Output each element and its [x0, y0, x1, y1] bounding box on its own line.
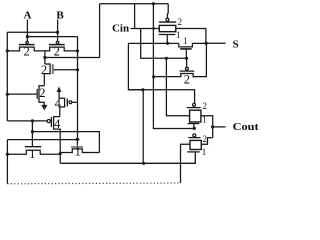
M8 size label 1 [75, 145, 81, 159]
wire N1 to Cin-column (y=57.5) [45, 57, 100, 59]
T5 size label 4 [55, 96, 62, 110]
up arrow above T5 [57, 86, 62, 92]
node lower rail M7 source dot [6, 153, 9, 156]
transmission gate TG1 (sizes 2/1) [166, 4, 169, 19]
transmission gate box1 (Cout mux, sizes 2/1) [193, 103, 196, 106]
transistor M_S1 (NMOS inverted, size 1) [179, 43, 206, 47]
svg-text:Cout: Cout [233, 121, 259, 133]
svg-text:Cin: Cin [112, 23, 129, 35]
M_S1 size label 1 [183, 36, 188, 46]
wire node N1 vertical tap [44, 51, 46, 64]
transistor T5 (PMOS vertical, gate=A riser, size 4) [59, 92, 65, 117]
node riser M8 gate dot [76, 138, 79, 141]
wire left rail (B) vertical [6, 32, 8, 121]
transistor M8 (NMOS, gate=A, size 1) [76, 139, 78, 145]
TG3 size label 2 [203, 134, 208, 144]
wire riser x=134.6 to top rail [134, 4, 136, 29]
output label Cout [233, 121, 259, 133]
TG3 size label 1 [202, 147, 207, 157]
wire x=128.4 vertical [128, 43, 143, 89]
wire S output [206, 42, 225, 44]
wire W_bot y=163.3 [60, 152, 195, 163]
node S dot [205, 42, 208, 45]
svg-text:1: 1 [183, 36, 188, 46]
wire Cout output [213, 126, 226, 128]
node top rail dot [152, 2, 155, 5]
svg-text:1: 1 [75, 145, 81, 159]
node T6 gate wire dot [31, 119, 34, 122]
wire A horizontal to riser [27, 36, 77, 38]
svg-text:2: 2 [203, 101, 208, 111]
TG1 size label 1 [176, 30, 181, 40]
node W_g dot [193, 127, 196, 130]
node riser P2 drain dot [76, 49, 79, 52]
wire box2 right terminal to Cout node [201, 138, 212, 145]
P1 size label 2 [23, 45, 29, 59]
input label Cin [112, 23, 129, 35]
down arrow under T4 [41, 105, 47, 111]
wire top rail (Cin) [100, 3, 169, 5]
wire vertical x=99.6 up to top rail [99, 4, 101, 58]
node A tap dot [26, 35, 29, 38]
svg-text:S: S [232, 39, 238, 51]
M_S2 size label 2 [184, 72, 190, 86]
transistor T3 (NMOS vertical, gate=A, size 2) [44, 64, 50, 86]
wire y=89.9 (S to box1 gate) [128, 90, 194, 104]
wire W_S (sum wire y=43.3) [128, 42, 178, 44]
node wire y=89.9 riser dot [141, 88, 144, 91]
wire M7 gate riser [31, 121, 33, 147]
wire y=131.6 to M8 drain riser [32, 132, 99, 153]
M7 size label 1 [29, 147, 35, 161]
wire rail x=153.6 (Cin) [153, 4, 194, 129]
T3 size label 2 [41, 63, 47, 77]
node TG1 n-gate dot [166, 42, 169, 45]
svg-text:2: 2 [184, 72, 190, 86]
node rail T4 gate dot [6, 93, 9, 96]
node Cout dot [211, 125, 214, 128]
wire box1 output to Cout [201, 116, 213, 138]
wire riser x=166.6 (Cin to box1 input) [166, 58, 189, 116]
P2 size label 2 [54, 45, 60, 59]
TG1 size label 2 [178, 17, 183, 27]
node M7 M8 junction dot [59, 152, 62, 155]
node wire58 gates dot [185, 57, 188, 60]
svg-text:4: 4 [54, 117, 61, 131]
svg-text:1: 1 [202, 147, 207, 157]
output label S [232, 39, 238, 51]
wire lower-left vertical [6, 140, 8, 184]
wire B horizontal to left rail [7, 31, 57, 33]
svg-text:2: 2 [41, 63, 47, 77]
node riser T3 gate dot [76, 68, 79, 71]
node M7 riser dot [31, 130, 34, 133]
transmission gate box2 (Cout mux lower, sizes 2/1) [193, 134, 196, 137]
node W_bot riser dot [142, 162, 145, 165]
svg-text:1: 1 [29, 147, 35, 161]
wire Cin input [131, 28, 160, 30]
svg-text:1: 1 [176, 30, 181, 40]
svg-text:2: 2 [39, 86, 45, 100]
wire A input stub [26, 20, 28, 42]
input label B [56, 10, 64, 22]
wire x=143 vertical [142, 90, 144, 163]
wire B input stub [57, 20, 59, 42]
wire H-line y=139.6 (A to M8 gate) [7, 139, 79, 141]
transistor T4 (NMOS vertical, gate=B rail, size 2) [39, 86, 44, 106]
transistor P2 (PMOS, gate=B, size 2) [56, 41, 59, 44]
T4 size label 2 [39, 86, 45, 100]
transistor M7 (NMOS, gate riser, size 1) [25, 146, 41, 148]
wire box2 left terminal to dotted [181, 144, 191, 183]
node N1 dot [43, 56, 46, 59]
svg-text:2: 2 [23, 45, 29, 59]
svg-text:4: 4 [55, 96, 62, 110]
TG2 size label 1 [202, 115, 207, 125]
node rail-Cin cross dot [152, 27, 155, 30]
svg-text:2: 2 [203, 134, 208, 144]
wire rail corner to T6 gate bubble [7, 120, 47, 122]
transistor T6 (PMOS vertical, gate=B rail, size 4) [54, 117, 61, 164]
wire TG1 output to S node [176, 29, 206, 44]
transistor M_S2 (PMOS, gate wire58, size 2) [186, 58, 188, 67]
svg-text:2: 2 [178, 17, 183, 27]
input label A [24, 10, 32, 22]
T6 size label 4 [54, 117, 61, 131]
dotted return wire at bottom [7, 182, 180, 185]
node wire58 riser166 dot [165, 57, 168, 60]
TG2 size label 2 [203, 101, 208, 111]
transistor P1 (PMOS, gate=A, size 2) [26, 41, 29, 44]
wire riser A (vertical x=77.5) [77, 37, 79, 140]
svg-text:2: 2 [54, 45, 60, 59]
node B tap dot [56, 31, 59, 34]
wire riser x=140.7 down [141, 29, 187, 59]
node rail M_S2 dot [152, 75, 155, 78]
node rail P1 source dot [6, 49, 9, 52]
